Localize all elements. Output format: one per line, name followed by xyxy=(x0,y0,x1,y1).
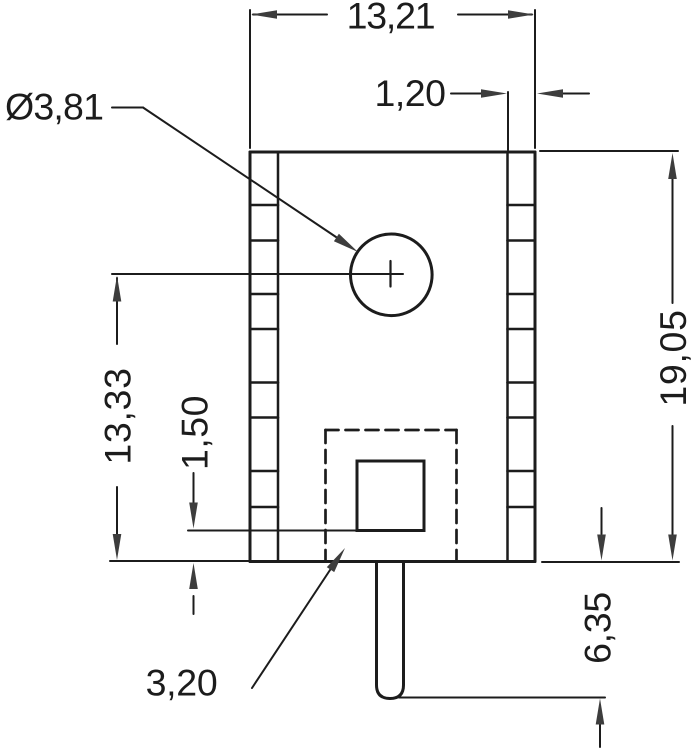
right fin strip rungs xyxy=(508,205,536,507)
body top edge xyxy=(250,151,535,154)
arrowhead 13,21 right xyxy=(508,10,534,19)
dim 13,21 dimension line right part xyxy=(458,14,532,16)
arrowhead 6,35 bottom xyxy=(596,699,605,725)
arrowhead 13,21 left xyxy=(251,10,277,19)
right fin strip inner edge xyxy=(506,152,509,562)
left fin strip rungs xyxy=(250,205,278,507)
dim 19,05 shaft lower xyxy=(672,426,674,535)
right fin strip outer edge xyxy=(534,152,537,562)
left fin strip inner edge xyxy=(277,152,280,562)
arrowhead 13,33 bottom xyxy=(113,534,122,560)
body bottom edge xyxy=(250,560,535,563)
svg-text:1,50: 1,50 xyxy=(174,395,216,470)
mounting hole circle xyxy=(351,234,433,316)
arrowhead 13,33 top xyxy=(113,276,122,302)
arrowhead 1,50 upper xyxy=(189,503,198,529)
arrowhead 19,05 bottom xyxy=(668,535,677,561)
dim 1,20 right arrow tail xyxy=(561,93,589,95)
arrowhead dia 3,81 leader xyxy=(334,234,358,252)
dim 6,35 bottom arrow tail xyxy=(599,724,601,747)
dim 13,33 shaft lower xyxy=(116,487,118,534)
hole centerline horizontal xyxy=(112,273,403,275)
leader line 3,20 xyxy=(252,567,332,688)
svg-text:13,21: 13,21 xyxy=(347,0,435,37)
dim 1,20 left arrow tail xyxy=(451,93,483,95)
dim 13,21 right extension line xyxy=(534,10,536,148)
svg-text:1,20: 1,20 xyxy=(375,72,446,114)
arrowhead 3,20 leader xyxy=(327,548,345,572)
dim 1,50 lower arrow tail dash xyxy=(193,596,195,614)
arrowhead 1,20 left xyxy=(481,89,507,98)
arrowhead 6,35 top xyxy=(597,535,606,561)
dim 13,21 left extension line xyxy=(249,10,251,148)
left fin strip outer edge xyxy=(249,152,252,562)
dim 13,21 dimension line left part xyxy=(253,14,327,16)
arrowhead 19,05 top xyxy=(668,153,677,179)
arrowhead 1,20 right xyxy=(537,89,563,98)
leader line dia 3,81 horizontal xyxy=(112,107,143,109)
pin / tab xyxy=(377,562,404,699)
svg-text:13,33: 13,33 xyxy=(97,367,139,464)
dim 19,05 top extension line xyxy=(540,150,678,152)
svg-text:19,05: 19,05 xyxy=(652,309,694,406)
dim 13,33 shaft upper xyxy=(116,278,118,344)
svg-text:3,20: 3,20 xyxy=(146,662,218,704)
dim 1,20 extension line xyxy=(507,92,509,150)
dim 1,50 shaft upper xyxy=(193,473,195,503)
square bottom extension line xyxy=(188,530,357,532)
leader line dia 3,81 diagonal xyxy=(143,108,336,238)
svg-text:6,35: 6,35 xyxy=(577,592,619,664)
arrowhead 1,50 lower xyxy=(189,563,198,589)
dashed square outline xyxy=(326,430,457,562)
dim 19,05 bottom extension line xyxy=(542,561,679,563)
dim 13,33 bottom-left extension line xyxy=(110,560,250,562)
dim 6,35 bottom extension line xyxy=(399,697,605,699)
dim 6,35 upper arrow tail xyxy=(601,508,603,534)
inner solid square xyxy=(357,461,424,531)
svg-text:Ø3,81: Ø3,81 xyxy=(5,86,103,128)
hole center cross vertical tick xyxy=(389,261,391,287)
dim 19,05 shaft upper xyxy=(672,179,674,303)
